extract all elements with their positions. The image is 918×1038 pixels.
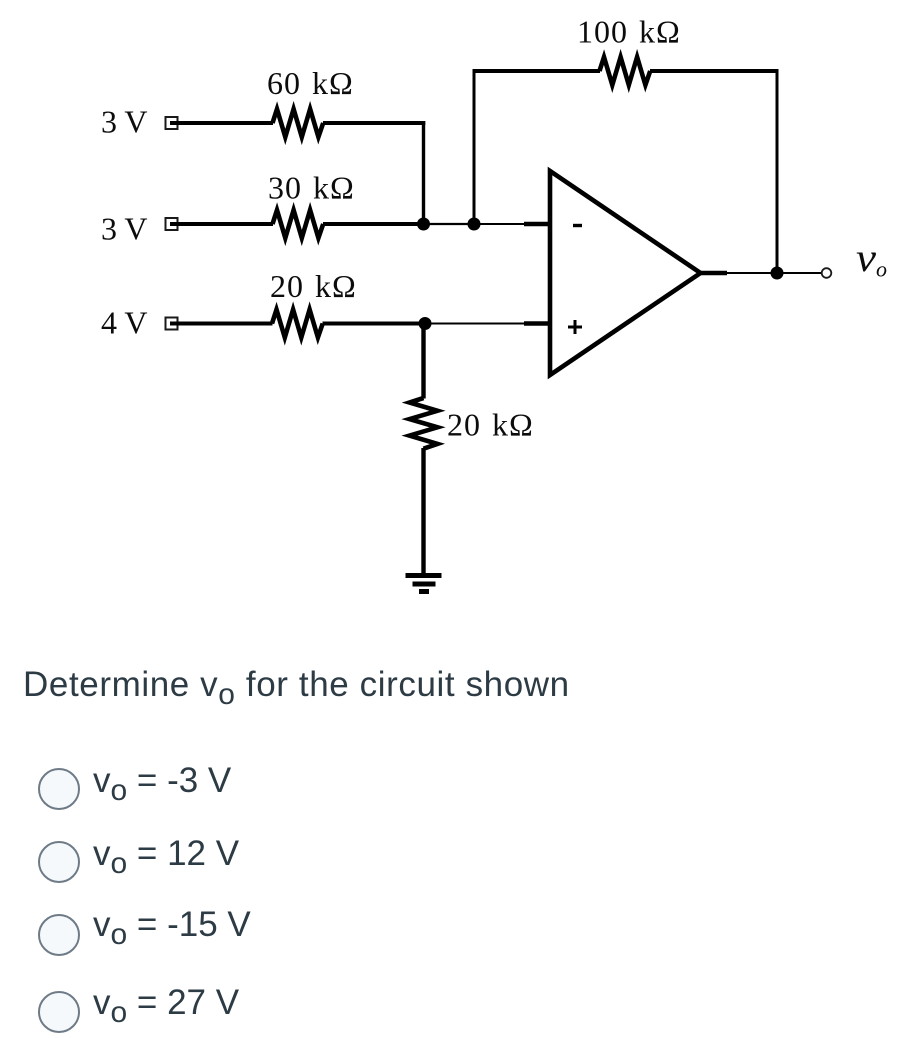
feedback wire top left	[473, 69, 601, 73]
svg-text:30 kΩ: 30 kΩ	[268, 170, 355, 206]
node junction row3 (non-inverting)	[419, 317, 432, 330]
wire row1 down to inverting node	[422, 121, 425, 224]
option B text vo = 12 V	[93, 834, 239, 874]
option B radio	[38, 841, 80, 883]
wire to inverting input	[474, 223, 524, 225]
svg-text:o: o	[876, 257, 887, 282]
wire to non-inverting input	[425, 323, 524, 325]
source terminal 3 V row 2	[166, 218, 178, 230]
resistor 60 kΩ	[273, 109, 324, 137]
wire row1 right	[323, 121, 425, 125]
question text	[23, 665, 570, 705]
svg-text:3 V: 3 V	[101, 211, 148, 247]
output wire	[727, 272, 822, 274]
svg-text:4 V: 4 V	[101, 305, 148, 341]
svg-text:20 kΩ: 20 kΩ	[270, 268, 357, 304]
option A radio	[38, 768, 80, 810]
wire node to feedback node	[424, 223, 475, 225]
non-inverting input stub	[524, 321, 551, 325]
feedback wire down to output node	[776, 69, 779, 273]
resistor 20 kΩ row 3	[272, 310, 323, 338]
feedback wire top right	[650, 69, 779, 73]
ground	[406, 576, 442, 592]
option A text vo = -3 V	[93, 761, 231, 801]
wire row2 left	[170, 222, 273, 226]
wire row3 right	[323, 322, 426, 326]
option C text vo = -15 V	[93, 905, 251, 945]
option D radio	[38, 991, 80, 1033]
option C radio	[38, 914, 80, 956]
source terminal 3 V row 1	[166, 117, 178, 129]
svg-text:100 kΩ: 100 kΩ	[577, 14, 681, 50]
svg-text:3 V: 3 V	[101, 104, 148, 140]
label vo output	[856, 235, 887, 282]
resistor 20 kΩ to ground	[410, 398, 438, 449]
wire row1 left	[170, 121, 273, 125]
resistor 100 kΩ feedback	[600, 57, 651, 85]
svg-text:60 kΩ: 60 kΩ	[267, 65, 354, 101]
wire non-inverting node down	[421, 324, 425, 399]
svg-text:20 kΩ: 20 kΩ	[447, 407, 534, 443]
wire row3 left	[170, 322, 273, 326]
node junction output	[771, 267, 784, 280]
node junction feedback at x=474	[468, 218, 481, 231]
source terminal 4 V row 3	[166, 318, 178, 330]
wire resistor to ground	[421, 448, 425, 576]
resistor 30 kΩ	[273, 210, 324, 238]
inverting input stub	[524, 222, 551, 226]
op-amp U1	[550, 171, 701, 375]
wire row2 right	[323, 222, 424, 226]
svg-text:v: v	[856, 235, 876, 280]
feedback wire up from inverting node	[473, 69, 476, 224]
option D text vo = 27 V	[93, 983, 239, 1023]
output terminal circle	[822, 268, 832, 278]
output stub	[699, 271, 727, 275]
node junction row2 at x=423.5	[417, 218, 430, 231]
